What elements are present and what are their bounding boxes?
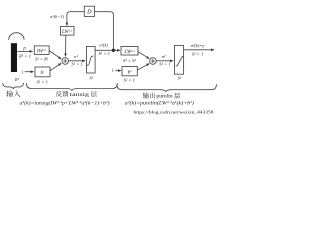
svg-text:S¹ × 1: S¹ × 1 [37, 79, 48, 84]
wire sum2 to purelin [156, 60, 173, 62]
svg-text:1: 1 [112, 68, 114, 73]
svg-text:a¹(k−1): a¹(k−1) [50, 14, 64, 19]
wire a1(k) from tansig to LW2,1 [95, 49, 120, 51]
underbrace output purelin layer [117, 84, 217, 91]
signal p arrow [17, 50, 32, 52]
wire b2 to sum2 [137, 64, 149, 70]
bias box b1 [35, 67, 50, 77]
svg-text:S¹ × R¹: S¹ × R¹ [35, 57, 49, 62]
wire LW2,1 to sum2 [138, 52, 149, 59]
tansig transfer box [87, 46, 96, 73]
label fankui tansig ceng [56, 91, 62, 97]
feedback wire node up to D [95, 12, 114, 49]
svg-text:1: 1 [21, 69, 23, 74]
svg-text:S² × S¹: S² × S¹ [123, 58, 136, 63]
output wire a2(k)=y [184, 49, 214, 51]
svg-text:D: D [86, 10, 92, 16]
svg-text:n²: n² [162, 54, 166, 59]
arc over input [9, 33, 24, 40]
svg-text:purelin: purelin [156, 94, 173, 100]
svg-text:https://blog.csdn.net/weixin_4: https://blog.csdn.net/weixin_443358 [134, 109, 215, 114]
wire LW1,1 down to sum1 [65, 35, 67, 56]
wire IW1,1 to sum1 [49, 51, 61, 59]
purelin line icon [176, 57, 184, 66]
weight box IW1,1 [34, 46, 49, 55]
delay box D [84, 6, 94, 16]
feedback wire D to LW1,1 [67, 12, 84, 26]
svg-text:S¹ × 1: S¹ × 1 [71, 61, 82, 66]
label shuru (input) [6, 90, 13, 97]
bias box b2 [122, 67, 137, 76]
svg-text:R¹ × 1: R¹ × 1 [18, 54, 31, 59]
underbrace input [3, 83, 24, 89]
purelin transfer box [175, 45, 184, 74]
input vector bar p [11, 43, 17, 72]
label shuchu purelin ceng [143, 93, 149, 99]
sum junction 1 [62, 58, 69, 65]
underbrace feedback tansig layer [26, 83, 117, 90]
svg-text:S² × 1: S² × 1 [124, 78, 135, 83]
context weight box LW1,1 [61, 27, 75, 36]
svg-text:a²(k)=y: a²(k)=y [191, 43, 205, 48]
svg-text:S² × 1: S² × 1 [192, 52, 203, 57]
bias 1 arrow (layer 1) [25, 71, 34, 73]
svg-text:S² × 1: S² × 1 [159, 62, 170, 67]
weight box LW2,1 [121, 47, 138, 56]
svg-text:R¹: R¹ [14, 77, 20, 82]
node a1(k) junction dot [112, 49, 115, 52]
svg-text:p: p [22, 47, 26, 52]
svg-text:a¹(k): a¹(k) [99, 43, 108, 48]
bias 1 arrow (layer 2) [115, 70, 121, 72]
svg-text:tansig: tansig [70, 92, 90, 98]
svg-text:S¹ × 1: S¹ × 1 [99, 51, 110, 56]
wire b1 to sum1 [50, 63, 61, 70]
svg-text:a¹(k)=tansig(IW¹·¹p+LW¹·¹a¹(k−: a¹(k)=tansig(IW¹·¹p+LW¹·¹a¹(k−1)+b¹) [20, 99, 110, 106]
wire sum1 to tansig [69, 60, 86, 62]
sum junction 2 [150, 58, 157, 65]
svg-text:n¹: n¹ [74, 54, 78, 59]
svg-text:a²(k)=purelin(LW²·¹a¹(k)+b²): a²(k)=purelin(LW²·¹a¹(k)+b²) [125, 99, 194, 106]
tansig curve icon [87, 56, 94, 65]
